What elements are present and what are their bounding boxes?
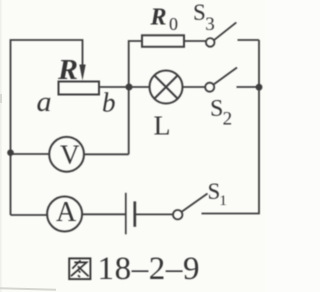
svg-text:1: 1	[219, 193, 227, 209]
svg-text:S: S	[210, 96, 223, 122]
svg-text:3: 3	[205, 14, 215, 35]
svg-text:L: L	[154, 111, 171, 141]
svg-text:R: R	[57, 55, 78, 86]
svg-text:S: S	[208, 179, 221, 204]
svg-text:b: b	[102, 88, 116, 118]
svg-text:0: 0	[169, 14, 178, 34]
svg-text:A: A	[56, 197, 77, 228]
svg-text:S: S	[193, 0, 206, 25]
svg-text:V: V	[60, 139, 80, 169]
svg-text:2: 2	[223, 109, 233, 130]
svg-text:a: a	[37, 86, 52, 118]
svg-text:R: R	[150, 5, 167, 31]
svg-text:18–2–9: 18–2–9	[98, 251, 201, 287]
